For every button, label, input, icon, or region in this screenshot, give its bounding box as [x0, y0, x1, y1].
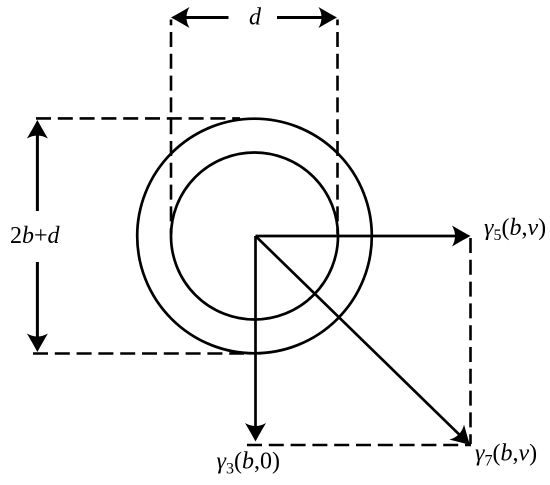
svg-text:γ3(b,0): γ3(b,0) — [217, 449, 280, 478]
svg-text:γ7(b,v): γ7(b,v) — [475, 441, 537, 470]
wire: bottom horizontal dashed line of 2b+d box (y=353.5) — [33, 352, 244, 355]
svg-text:d: d — [249, 5, 262, 31]
wire: right vertical dashed line (x=470.5) — [469, 238, 472, 444]
wire: top horizontal dashed line of 2b+d box (y=118.4) — [36, 117, 240, 120]
wire: right vertical dashed line of top width-d box (x=337.5) — [336, 20, 339, 235]
arrow: gamma3 vertical vector from center — [245, 236, 266, 442]
inner circle (diameter d) — [171, 153, 338, 320]
svg-text:γ5(b,v): γ5(b,v) — [484, 215, 546, 244]
wire: bottom horizontal dashed line (y=445) — [247, 444, 471, 447]
arrow: gamma5 horizontal vector from center — [256, 226, 471, 247]
arrow: d dimension left arrow — [171, 7, 229, 28]
wire: left vertical dashed line of top width-d box (x=171) — [170, 20, 173, 235]
svg-text:2b+d: 2b+d — [10, 223, 61, 249]
arrow: 2b+d dimension down arrow — [27, 262, 48, 352]
arrow: gamma7 diagonal vector from center — [256, 236, 478, 453]
outer circle (diameter 2b+d) — [137, 119, 372, 354]
arrow: 2b+d dimension up arrow — [27, 120, 48, 211]
arrow: d dimension right arrow — [277, 7, 337, 28]
